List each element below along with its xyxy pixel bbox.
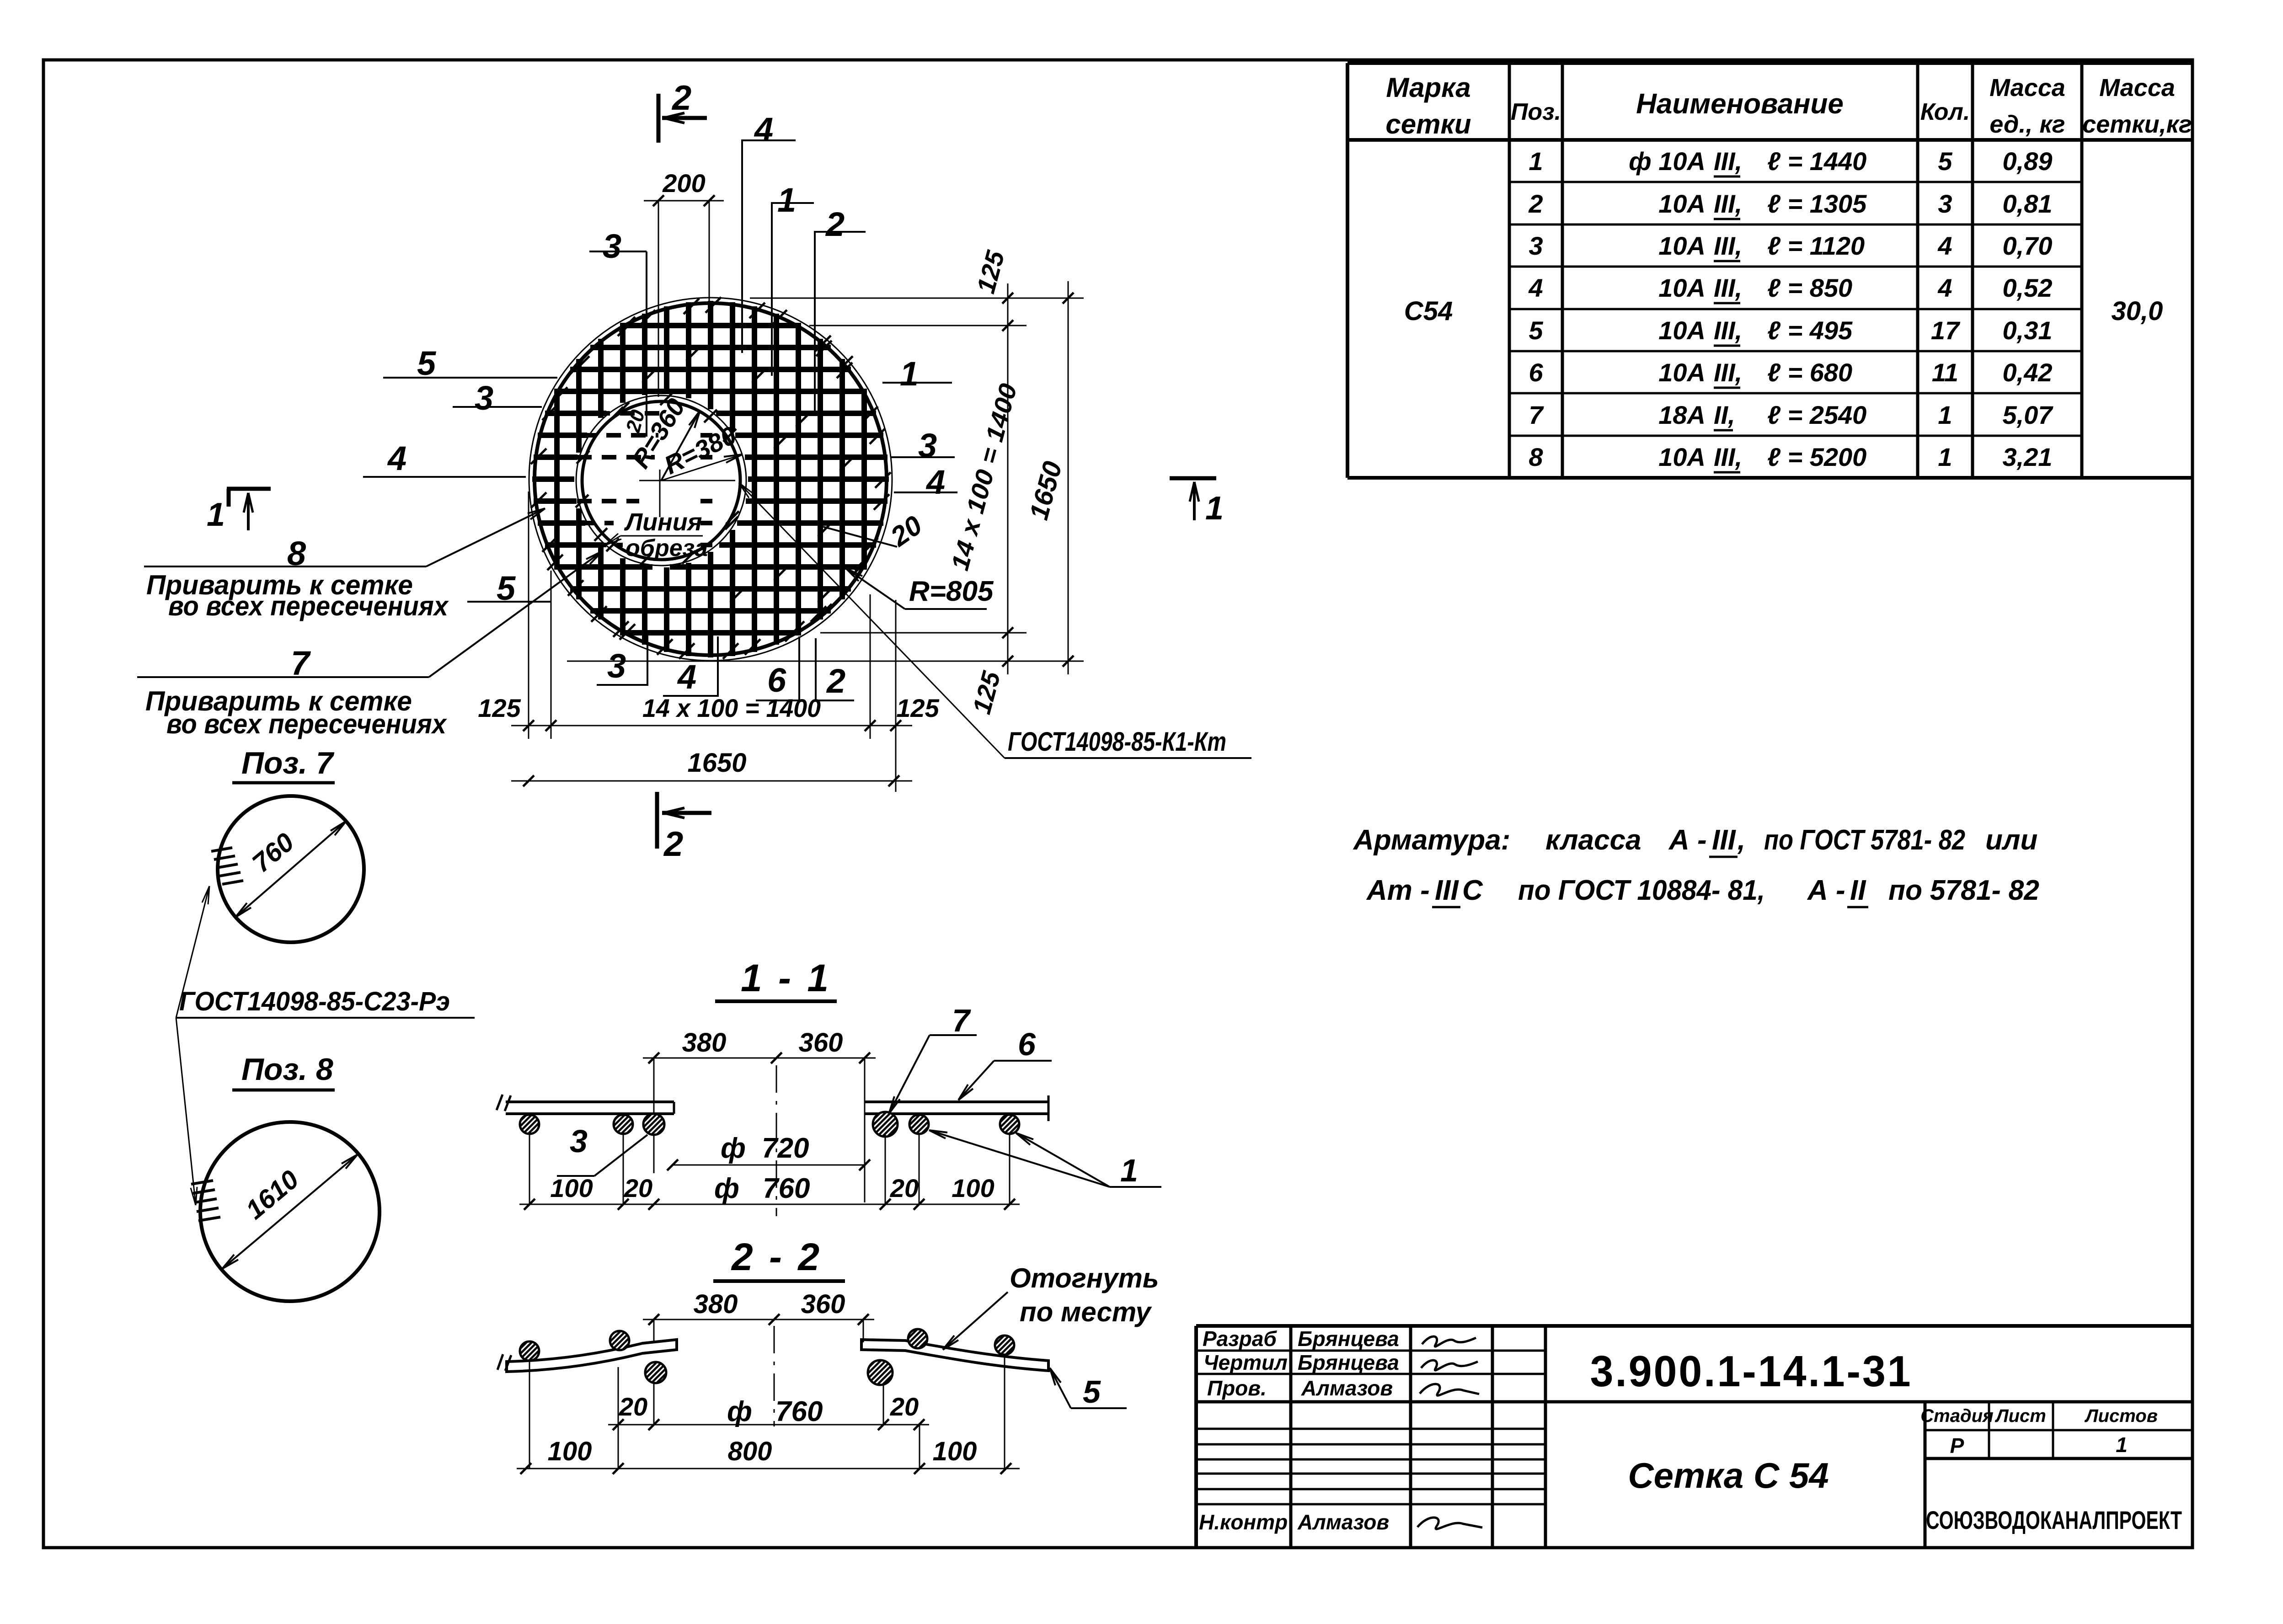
radius arrow R=380 [661,454,742,481]
leader line for Линия обреза [620,535,703,537]
svg-text:20: 20 [890,1392,919,1421]
bar circle Поз.8 [200,1122,380,1301]
svg-text:3: 3 [607,647,626,685]
svg-text:3: 3 [918,427,937,465]
svg-text:10А: 10А [1658,231,1706,260]
svg-text:30,0: 30,0 [2112,296,2163,326]
svg-text:100: 100 [933,1437,977,1466]
mesh horizontal bar y=1048 [532,476,574,482]
svg-text:Брянцева: Брянцева [1298,1327,1399,1351]
2-2 centreline [774,1326,775,1426]
mesh vertical bar x=1458 [664,306,669,394]
svg-text:14 x 100 = 1400: 14 x 100 = 1400 [642,694,821,722]
svg-text:3,21: 3,21 [2003,443,2053,471]
svg-text:11: 11 [1932,358,1958,387]
leader from С23 label to Поз.7 [176,886,209,1018]
doc number box [1545,1400,2192,1404]
svg-text:А -: А - [1668,824,1707,856]
svg-text:100: 100 [550,1174,593,1202]
svg-text:Разраб: Разраб [1203,1327,1277,1351]
svg-text:4: 4 [387,439,406,477]
svg-text:1 - 1: 1 - 1 [741,956,831,999]
2-2 rebar sections [520,1341,539,1361]
mesh vertical bar x=1362 [620,324,626,403]
svg-text:125: 125 [478,694,521,722]
dashed cut bar right stub y=1192 [700,543,712,547]
dashed cut bar inside hole y=1144 [580,521,614,525]
1-1 rebar sections [520,1115,539,1134]
svg-text:ед., кг: ед., кг [1989,111,2065,138]
svg-text:Сетка С 54: Сетка С 54 [1628,1455,1829,1496]
svg-text:10А: 10А [1658,316,1706,345]
svg-text:3: 3 [570,1123,588,1159]
mesh vertical bar x=1218 [554,389,560,570]
dashed cut bar inside hole y=904 [595,411,662,416]
diameter arrow 1610 [222,1154,358,1269]
right dim line 125 / 14x100=1400 / 125 [1007,283,1009,674]
svg-text:Арматура:: Арматура: [1353,824,1510,856]
svg-text:Пров.: Пров. [1207,1376,1267,1400]
svg-text:ℓ = 1120: ℓ = 1120 [1767,231,1865,260]
section mark 1 (left) [227,487,271,491]
svg-text:3.900.1-14.1-31: 3.900.1-14.1-31 [1590,1347,1913,1396]
svg-text:II,: II, [1714,401,1735,429]
svg-text:по ГОСТ 5781- 82: по ГОСТ 5781- 82 [1764,824,1965,856]
svg-text:III: III [1712,824,1736,856]
svg-text:1: 1 [2116,1433,2128,1457]
weld squiggle on Поз.7 [211,848,243,884]
dashed cut bar inside hole y=1000 [577,455,655,459]
mesh vertical bar x=1650 [752,306,757,652]
dimension 200 (top) [644,200,724,202]
svg-text:0,70: 0,70 [2003,231,2053,260]
svg-text:II: II [1850,875,1866,906]
leader from С23 label to Поз.8 [176,1018,196,1205]
svg-text:R=805: R=805 [909,576,994,607]
stage/sheet grid [1924,1402,1927,1548]
hole outer circle R=380 [576,395,746,566]
mesh horizontal bar y=904 [545,411,606,416]
svg-text:ф 10А: ф 10А [1629,147,1706,176]
mesh vertical bar x=1842 [839,359,845,599]
svg-text:4: 4 [754,111,773,149]
svg-text:0,31: 0,31 [2003,316,2053,345]
parts table grid [1347,61,2192,65]
svg-text:ф: ф [727,1396,752,1427]
weld tick marks at ring/mesh crossings [531,297,891,659]
svg-text:III,: III, [1714,316,1742,345]
mesh vertical centreline [709,201,710,326]
dashed cut bar inside hole y=1096 [577,499,639,503]
1-1 right slab [865,1100,1048,1103]
svg-text:200: 200 [662,169,705,198]
svg-text:класса: класса [1545,824,1641,856]
mesh vertical bar x=1554 [708,301,713,409]
svg-text:0,52: 0,52 [2003,273,2053,302]
svg-text:6: 6 [1018,1026,1036,1062]
mesh horizontal bar y=1144 [538,520,585,526]
svg-text:1: 1 [777,181,796,219]
svg-text:ГОСТ14098-85-С23-Рэ: ГОСТ14098-85-С23-Рэ [179,987,450,1016]
section mark 1 (right) [1170,476,1216,481]
svg-text:III,: III, [1714,358,1742,387]
2-2 bottom chain 100/800/100 [517,1468,1020,1469]
svg-text:С54: С54 [1404,296,1453,326]
svg-text:4: 4 [1937,273,1952,302]
svg-text:1650: 1650 [687,748,746,778]
svg-text:10А: 10А [1658,273,1706,302]
svg-text:Алмазов: Алмазов [1301,1376,1393,1400]
mesh horizontal bar y=760 [590,345,831,350]
svg-text:0,42: 0,42 [2003,358,2053,387]
svg-text:А -: А - [1807,875,1845,906]
svg-text:1: 1 [207,497,225,533]
svg-text:5,07: 5,07 [2003,401,2054,429]
mesh horizontal bar y=1336 [590,608,831,614]
svg-text:ℓ = 1440: ℓ = 1440 [1767,147,1866,176]
svg-text:во всех пересечениях: во всех пересечениях [168,591,449,621]
svg-text:18А: 18А [1658,401,1706,429]
mesh vertical bar x=1266 [576,359,582,453]
mesh horizontal bar y=1000 [534,454,577,460]
svg-text:СОЮЗВОДОКАНАЛПРОЕКТ: СОЮЗВОДОКАНАЛПРОЕКТ [1926,1506,2182,1534]
svg-text:125: 125 [896,694,939,722]
diameter arrow 760 [235,821,346,917]
radius arrow R=360 [661,411,700,481]
svg-text:ℓ = 850: ℓ = 850 [1767,273,1852,302]
svg-text:4: 4 [925,463,945,501]
svg-text:10А: 10А [1658,443,1706,471]
right dim line 1650 [1068,281,1069,674]
svg-text:Чертил: Чертил [1203,1351,1288,1374]
2-2 right bent bar [861,1340,1048,1371]
svg-text:20: 20 [619,1392,647,1421]
svg-text:Масса: Масса [2099,74,2175,101]
svg-text:ф: ф [721,1133,746,1164]
mesh horizontal bar y=1192 [545,542,603,548]
svg-text:по 5781- 82: по 5781- 82 [1888,875,2039,906]
svg-text:5: 5 [1083,1374,1101,1410]
svg-text:ℓ = 1305: ℓ = 1305 [1767,189,1867,218]
svg-text:3: 3 [603,227,621,265]
title block staff table [1289,1326,1293,1548]
dashed cut bar right stub y=952 [700,433,712,438]
svg-text:6: 6 [1529,358,1543,387]
mesh vertical bar x=1410 [642,314,647,395]
1-1 bottom chain ф760 with 100/20 [519,1204,1020,1205]
svg-text:ф: ф [714,1173,739,1204]
svg-text:2 - 2: 2 - 2 [731,1235,822,1278]
svg-text:ℓ = 2540: ℓ = 2540 [1767,401,1866,429]
svg-text:1: 1 [1205,490,1224,527]
right dim chain extension lines [750,298,1084,299]
svg-text:III,: III, [1714,273,1742,302]
svg-text:Отогнуть: Отогнуть [1010,1263,1159,1293]
1-1 left slab [506,1100,674,1103]
2-2 left bent bar [507,1340,677,1372]
mesh horizontal bar y=1384 [620,630,801,636]
dashed cut bar right stub y=1096 [700,499,712,503]
mesh horizontal bar y=712 [620,323,801,328]
svg-text:6: 6 [767,661,786,699]
svg-text:2: 2 [826,662,845,700]
mesh horizontal bar y=1096 [534,498,577,504]
svg-text:Поз. 8: Поз. 8 [241,1052,333,1087]
svg-text:4: 4 [677,658,696,696]
section mark 2 (top) [657,94,661,143]
2-2 leader for Отогнуть [943,1292,1008,1350]
svg-text:Марка: Марка [1386,72,1470,103]
title block outer border [1196,1324,2192,1328]
svg-text:760: 760 [775,1396,823,1427]
mesh vertical bar x=1506 [686,302,691,398]
svg-text:3: 3 [475,379,493,417]
svg-text:5: 5 [417,344,437,382]
svg-text:Поз. 7: Поз. 7 [241,746,335,780]
svg-text:Ат -: Ат - [1366,875,1430,906]
svg-text:360: 360 [801,1289,845,1319]
svg-text:ГОСТ14098-85-К1-Кт: ГОСТ14098-85-К1-Кт [1008,727,1226,757]
svg-text:Листов: Листов [2084,1406,2158,1426]
svg-text:III: III [1435,875,1459,906]
svg-text:Кол.: Кол. [1920,99,1970,125]
svg-text:Алмазов: Алмазов [1297,1510,1389,1534]
mesh horizontal bar y=856 [556,389,866,394]
svg-text:1: 1 [900,355,919,393]
svg-text:С: С [1462,875,1483,906]
mesh horizontal bar y=808 [570,367,851,372]
mesh horizontal bar y=1288 [570,586,851,592]
svg-text:100: 100 [548,1437,592,1466]
mesh vertical bar x=1746 [796,324,801,634]
hole cut line circle R=360 [582,401,740,560]
svg-text:Поз.: Поз. [1511,99,1561,125]
svg-text:Линия: Линия [624,508,702,536]
mesh vertical bar x=1698 [774,314,779,645]
svg-text:8: 8 [1529,443,1543,471]
weld squiggle on Поз.8 [191,1181,220,1221]
svg-text:20: 20 [890,1174,919,1202]
dashed cut bar right stub y=1000 [700,455,712,459]
section mark 2 (bottom) [655,792,659,849]
svg-text:сетки: сетки [1385,109,1471,139]
mesh horizontal bar y=1240 [556,564,652,570]
svg-text:Наименование: Наименование [1636,88,1844,120]
svg-text:0,89: 0,89 [2003,147,2053,176]
hole vertical centreline [658,201,659,397]
svg-text:III,: III, [1714,189,1742,218]
svg-text:1: 1 [1938,401,1952,429]
svg-text:1: 1 [1529,147,1543,176]
svg-text:1: 1 [1938,443,1952,471]
svg-text:по месту: по месту [1020,1297,1152,1327]
svg-text:2: 2 [1528,189,1543,218]
svg-text:7: 7 [952,1003,971,1038]
svg-text:III,: III, [1714,147,1742,176]
svg-text:,: , [1737,824,1745,856]
svg-text:800: 800 [728,1437,772,1466]
svg-text:720: 720 [762,1133,809,1164]
mesh vertical bar x=1890 [861,389,867,570]
ring bar 8 (R=805) circle [535,303,887,655]
svg-text:0,81: 0,81 [2003,189,2053,218]
bottom dim extension lines [528,491,529,739]
mesh horizontal bar y=952 [538,433,587,438]
svg-text:17: 17 [1931,316,1961,345]
svg-text:20: 20 [624,1174,652,1202]
svg-text:по ГОСТ 10884- 81,: по ГОСТ 10884- 81, [1518,875,1765,906]
svg-text:2: 2 [671,79,691,118]
svg-text:ℓ = 5200: ℓ = 5200 [1767,443,1866,471]
dashed cut bar right stub y=1144 [700,521,712,525]
svg-text:5: 5 [1529,316,1543,345]
hole centre cross [639,480,735,481]
mesh vertical bar x=1314 [598,339,604,418]
svg-text:Лист: Лист [1994,1406,2046,1426]
svg-text:5: 5 [1938,147,1952,176]
svg-text:4: 4 [1528,273,1543,302]
bottom dim line 125/14x100=1400/125 [511,725,912,727]
svg-text:360: 360 [799,1028,843,1058]
svg-text:1: 1 [1120,1153,1138,1188]
svg-text:ℓ = 495: ℓ = 495 [1767,316,1853,345]
svg-text:во всех пересечениях: во всех пересечениях [166,709,447,739]
dashed cut bar inside hole y=1192 [592,543,623,547]
svg-text:или: или [1985,824,2037,856]
dashed cut bar inside hole y=952 [582,433,658,438]
svg-text:10А: 10А [1658,358,1706,387]
svg-text:2: 2 [825,205,845,243]
svg-text:сетки,кг: сетки,кг [2082,111,2192,138]
svg-text:100: 100 [952,1174,994,1202]
svg-text:3: 3 [1938,189,1952,218]
1-1 centreline [776,1065,777,1216]
svg-text:Стадия: Стадия [1920,1406,1993,1426]
svg-text:обреза: обреза [626,535,708,561]
svg-text:4: 4 [1937,231,1952,260]
mesh vertical bar x=1794 [818,339,823,620]
svg-text:Н.контр: Н.контр [1199,1510,1288,1534]
mesh outer edge circle [529,298,892,661]
svg-text:ℓ = 680: ℓ = 680 [1767,358,1852,387]
svg-text:10А: 10А [1658,189,1706,218]
svg-text:Масса: Масса [1989,74,2065,101]
svg-text:380: 380 [682,1028,727,1058]
svg-text:2: 2 [663,825,683,864]
svg-text:760: 760 [763,1173,810,1204]
svg-text:III,: III, [1714,443,1742,471]
bottom dim line 1650 [511,780,912,782]
svg-text:3: 3 [1529,231,1543,260]
svg-text:7: 7 [1529,401,1544,429]
mesh vertical bar x=1602 [730,302,735,431]
svg-text:380: 380 [694,1289,738,1319]
svg-text:III,: III, [1714,231,1742,260]
svg-text:Р: Р [1950,1434,1964,1458]
svg-text:Брянцева: Брянцева [1298,1351,1399,1374]
bar circle Поз.7 [218,796,364,942]
